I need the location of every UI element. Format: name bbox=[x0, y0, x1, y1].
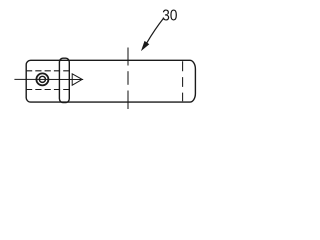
vertical centerline middle dash bbox=[127, 71, 129, 85]
hidden hole line lower bbox=[26, 89, 69, 91]
screw hole inner circle bbox=[39, 76, 45, 82]
vertical centerline lower segment bbox=[127, 91, 129, 110]
hidden hole line upper bbox=[26, 70, 69, 72]
leader arrowhead bbox=[142, 41, 149, 50]
vertical centerline upper segment bbox=[127, 48, 129, 66]
screw hole outer circle bbox=[36, 73, 48, 85]
cone point bbox=[72, 74, 82, 85]
leader line for 30 bbox=[147, 18, 164, 43]
body outline of part 30 bbox=[26, 60, 195, 102]
reference numeral 30 bbox=[163, 10, 177, 21]
right hidden dashed line bbox=[182, 61, 184, 101]
horizontal centerline bbox=[14, 78, 83, 80]
collar band bbox=[59, 58, 69, 102]
